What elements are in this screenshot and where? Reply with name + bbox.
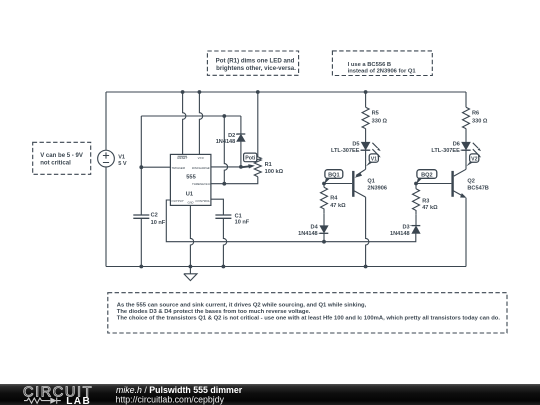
- svg-text:R6: R6: [472, 111, 479, 117]
- svg-text:U1: U1: [186, 191, 193, 197]
- wire TRIGGER pin: [141, 166, 170, 168]
- svg-text:The diodes D3 & D4 protect the: The diodes D3 & D4 protect the bases fro…: [117, 309, 311, 315]
- svg-text:C2: C2: [151, 213, 158, 219]
- svg-text:Pot (R1) dims one LED and: Pot (R1) dims one LED and: [216, 58, 295, 65]
- resistor R6: [463, 92, 470, 142]
- wire V1 bottom lead: [105, 167, 107, 267]
- svg-text:1N4148: 1N4148: [390, 231, 410, 237]
- wire C2 bottom: [140, 218, 142, 266]
- wire Q2 emitter down to rail: [465, 198, 467, 267]
- annotation box: BC556 note: [332, 51, 432, 76]
- wire Q1 collector down (hops output run): [366, 197, 369, 266]
- svg-text:BC547B: BC547B: [467, 186, 488, 192]
- svg-text:brightens other, vice-versa.: brightens other, vice-versa.: [216, 65, 296, 72]
- label R5: [372, 111, 388, 125]
- svg-text:2N3906: 2N3906: [367, 186, 387, 192]
- svg-text:D4: D4: [311, 225, 319, 231]
- annotation box: bottom note: [108, 293, 507, 333]
- svg-text:Poti: Poti: [245, 156, 256, 162]
- label D6 leader dash: [460, 149, 463, 151]
- capacitor C1: [215, 215, 231, 218]
- svg-text:CONTROL: CONTROL: [195, 199, 210, 203]
- svg-text:V2: V2: [471, 156, 477, 162]
- label C1: [235, 213, 250, 225]
- svg-text:BQ1: BQ1: [328, 172, 340, 178]
- logo wire with resistor and diode: [24, 398, 61, 404]
- resistor R3: [413, 184, 420, 226]
- wire GND pin vertical (hops output run): [190, 205, 193, 266]
- IC pin labels: [171, 156, 211, 205]
- wire top rail: [106, 91, 466, 93]
- svg-text:330 Ω: 330 Ω: [472, 118, 488, 124]
- svg-text:TRIGGER: TRIGGER: [171, 166, 186, 170]
- svg-text:not critical: not critical: [40, 160, 71, 166]
- resistor R4: [321, 184, 328, 226]
- svg-text:D2: D2: [228, 133, 235, 139]
- wire THRESHOLD pin to pot bottom: [211, 177, 258, 184]
- resistor R5: [362, 92, 369, 142]
- wire CONTROL pin to C1: [211, 199, 224, 215]
- svg-text:V can be 5 - 9V: V can be 5 - 9V: [40, 153, 83, 159]
- annotation box: supply note: [33, 142, 91, 174]
- wire D5 to Q1 emitter: [365, 150, 367, 169]
- label R4: [330, 195, 346, 209]
- node label V1 tag: [366, 154, 378, 166]
- label Q1: [367, 179, 387, 192]
- annotation box: pot note: [207, 51, 298, 75]
- junction dots: [139, 90, 418, 268]
- bottom bar: [0, 384, 540, 405]
- label R1: [265, 162, 284, 175]
- svg-text:R5: R5: [372, 111, 379, 117]
- wire D2 branch top: [240, 116, 242, 134]
- potentiometer R1 body: [254, 159, 261, 177]
- wire left vertical to trigger and C2: [140, 116, 142, 215]
- svg-text:D3: D3: [402, 224, 409, 230]
- label R3: [422, 198, 438, 211]
- svg-text:http://circuitlab.com/cepbjdy: http://circuitlab.com/cepbjdy: [116, 395, 225, 405]
- wire C1 bottom (hops output run): [223, 218, 226, 266]
- wire DISCHARGE pin: [211, 166, 241, 168]
- svg-text:The choice of the transistors: The choice of the transistors Q1 & Q2 is…: [117, 315, 501, 321]
- label D3 leader dash: [410, 225, 411, 227]
- svg-text:OUTPUT: OUTPUT: [171, 199, 185, 203]
- wire trigger/threshold link y=116: [141, 115, 241, 117]
- capacitor C2: [133, 215, 149, 218]
- svg-text:instead of 2N3906 for Q1: instead of 2N3906 for Q1: [348, 69, 417, 75]
- svg-text:D6: D6: [453, 141, 460, 147]
- svg-text:LAB: LAB: [66, 396, 91, 405]
- wire V1 top lead: [105, 92, 107, 150]
- op-amp U1 555 IC body: [170, 154, 211, 205]
- label D5 leader dash: [359, 149, 362, 151]
- LED D5: [361, 142, 370, 150]
- svg-text:BQ2: BQ2: [421, 172, 433, 178]
- svg-text:47 kΩ: 47 kΩ: [330, 203, 346, 209]
- diode D4 (cathode down): [320, 226, 329, 234]
- label R6: [472, 111, 488, 125]
- svg-text:R4: R4: [330, 195, 338, 201]
- svg-text:As the 555 can source and sink: As the 555 can source and sink current, …: [117, 302, 367, 308]
- IC RESET overline: [178, 155, 187, 157]
- svg-text:10 nF: 10 nF: [151, 220, 166, 226]
- label D4: [298, 225, 318, 237]
- svg-text:R1: R1: [265, 162, 272, 168]
- svg-text:DISCHARGE: DISCHARGE: [192, 166, 211, 170]
- voltage source V1: [98, 150, 115, 167]
- svg-text:Q1: Q1: [367, 179, 374, 185]
- transistor Q1 2N3906: [353, 169, 365, 197]
- diode D3 (cathode up): [412, 226, 421, 234]
- wire D4 to output run: [323, 233, 325, 241]
- LED D5 emission arrows: [372, 143, 380, 158]
- svg-text:I use a BC556 B: I use a BC556 B: [348, 62, 392, 68]
- svg-text:LTL-307EE: LTL-307EE: [431, 148, 460, 154]
- label D4 leader dash: [319, 232, 323, 234]
- svg-text:1N4148: 1N4148: [216, 139, 236, 145]
- svg-text:V1: V1: [118, 154, 125, 160]
- wire RESET pin vertical (hops y=116 line): [183, 92, 186, 154]
- label D3: [390, 224, 410, 237]
- svg-text:47 kΩ: 47 kΩ: [422, 205, 438, 211]
- svg-text:Q2: Q2: [467, 179, 474, 185]
- label D2: [216, 133, 236, 145]
- svg-text:D5: D5: [352, 141, 359, 147]
- svg-text:555: 555: [186, 174, 196, 180]
- svg-text:VCC: VCC: [198, 156, 205, 160]
- node label BQ2: [416, 170, 437, 184]
- wire threshold vertical (hops discharge wire): [224, 116, 227, 184]
- IC designator labels: [186, 174, 196, 197]
- wire bottom rail: [106, 266, 466, 268]
- svg-text:100 kΩ: 100 kΩ: [265, 169, 284, 175]
- svg-text:GND: GND: [188, 200, 194, 204]
- svg-text:LTL-307EE: LTL-307EE: [331, 148, 360, 154]
- transistor Q2 BC547B: [453, 169, 467, 198]
- label C2: [151, 213, 166, 226]
- wire VCC pin vertical (hops y=116 line): [199, 92, 202, 154]
- svg-text:1N4148: 1N4148: [298, 231, 318, 237]
- node label Poti: [244, 153, 262, 162]
- label D2 leader dash: [236, 133, 239, 135]
- node label V2 tag: [466, 154, 478, 166]
- diode D2 (cathode up): [237, 134, 246, 141]
- ground symbol: [184, 267, 197, 281]
- node label BQ1: [324, 170, 343, 184]
- svg-text:THRESHOLD: THRESHOLD: [192, 182, 211, 186]
- LED D6: [461, 142, 470, 150]
- wire Q2 base: [416, 183, 451, 185]
- svg-text:330 Ω: 330 Ω: [372, 118, 388, 124]
- svg-text:R3: R3: [422, 198, 429, 204]
- svg-text:5 V: 5 V: [118, 161, 127, 167]
- wire pot top vertical: [257, 92, 259, 159]
- wire D2 to wiper junction: [240, 141, 242, 167]
- svg-text:V1: V1: [371, 156, 377, 162]
- label D6: [431, 141, 460, 154]
- wire D6 to Q2 collector: [465, 150, 467, 169]
- potentiometer R1 wiper arrow: [241, 164, 255, 168]
- wire OUTPUT run: [166, 200, 415, 242]
- label Q2: [467, 179, 488, 192]
- wire Q1 base: [324, 183, 352, 185]
- LED D6 emission arrows: [473, 143, 481, 158]
- label D5: [331, 141, 360, 154]
- svg-text:10 nF: 10 nF: [235, 219, 250, 225]
- label V1 value: [118, 154, 127, 167]
